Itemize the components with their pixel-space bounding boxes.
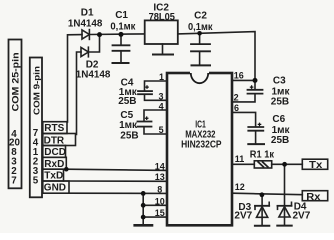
- svg-text:78L05: 78L05: [149, 12, 176, 23]
- svg-text:11: 11: [235, 154, 245, 164]
- svg-text:25В: 25В: [271, 97, 289, 108]
- svg-text:Tx: Tx: [309, 159, 322, 171]
- svg-text:2V7: 2V7: [293, 210, 311, 221]
- svg-text:RxD: RxD: [44, 159, 64, 170]
- svg-text:TxD: TxD: [44, 171, 63, 182]
- svg-text:R1 1к: R1 1к: [250, 150, 275, 161]
- svg-text:4: 4: [159, 101, 164, 111]
- svg-text:25В: 25В: [271, 135, 289, 146]
- svg-text:3: 3: [159, 92, 164, 102]
- svg-text:14: 14: [155, 161, 165, 171]
- svg-text:C3: C3: [273, 76, 286, 87]
- svg-text:16: 16: [234, 71, 244, 81]
- svg-text:1N4148: 1N4148: [76, 69, 111, 80]
- svg-text:25В: 25В: [118, 96, 136, 107]
- svg-text:C1: C1: [115, 10, 128, 21]
- svg-text:2: 2: [234, 93, 239, 103]
- svg-text:RTS: RTS: [44, 123, 64, 134]
- svg-text:HIN232CP: HIN232CP: [181, 139, 222, 150]
- svg-text:13: 13: [155, 172, 165, 182]
- svg-text:GND: GND: [44, 183, 66, 194]
- svg-text:5: 5: [159, 125, 164, 135]
- svg-text:5: 5: [33, 175, 39, 186]
- svg-text:0,1мк: 0,1мк: [110, 22, 136, 33]
- svg-text:C2: C2: [194, 11, 207, 22]
- svg-text:25В: 25В: [120, 130, 138, 141]
- svg-text:COM 9-pin: COM 9-pin: [31, 66, 41, 115]
- svg-text:1: 1: [159, 72, 164, 82]
- svg-text:C6: C6: [272, 114, 285, 125]
- svg-text:7: 7: [11, 175, 17, 186]
- svg-text:15: 15: [155, 208, 165, 218]
- svg-text:12: 12: [235, 182, 245, 192]
- svg-text:COM 25-pin: COM 25-pin: [10, 52, 20, 111]
- svg-text:DCD: DCD: [44, 147, 66, 158]
- svg-text:1N4148: 1N4148: [68, 19, 103, 30]
- svg-text:D1: D1: [81, 8, 94, 19]
- svg-text:1мк: 1мк: [119, 120, 138, 131]
- svg-text:6: 6: [234, 103, 239, 113]
- svg-text:DTR: DTR: [44, 135, 65, 146]
- svg-text:10: 10: [155, 196, 165, 206]
- svg-text:2V7: 2V7: [234, 210, 252, 221]
- svg-text:8: 8: [157, 184, 162, 194]
- svg-text:0,1мк: 0,1мк: [188, 22, 213, 33]
- svg-text:Rx: Rx: [306, 191, 320, 203]
